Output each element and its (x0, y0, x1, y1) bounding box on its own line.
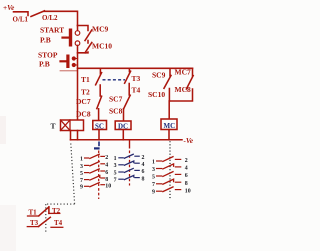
SC selector contact 3-4 left terminal (84, 164, 89, 166)
wire rail below START to STOP (77, 46, 79, 121)
overload contact O/L1-O/L2 blade (31, 11, 45, 17)
pushbutton STOP P.B plunger (66, 55, 69, 69)
DC selector contact 1-2 right terminal (134, 155, 140, 157)
wire T2 to DC7 (99, 85, 101, 96)
mechanical link bank 1 (red dashed) (98, 151, 100, 200)
label O/L2 (42, 14, 58, 22)
contact MC10 blade (85, 43, 92, 53)
DC selector contact 3-4 left terminal (118, 164, 124, 166)
svg-text:6: 6 (142, 169, 145, 175)
svg-text:-Ve: -Ve (184, 137, 194, 145)
label SC9 (152, 70, 166, 79)
label SC10 (148, 90, 165, 99)
label DC7 (76, 97, 91, 106)
svg-text:1: 1 (152, 159, 155, 165)
SC selector contact 9-10 right terminal (100, 184, 105, 186)
contact T1-T2 blade (96, 73, 102, 85)
mechanical link timer T to contacts T1..T4 (black dotted) (46, 144, 75, 233)
svg-text:MC9: MC9 (92, 25, 108, 34)
svg-text:10: 10 (105, 184, 111, 190)
MC selector contact 7-8 left terminal (156, 183, 162, 185)
contact T3-T4 blade (open) (39, 217, 51, 226)
SC selector contact 1-2 right terminal (100, 155, 105, 157)
svg-text:4: 4 (105, 163, 108, 169)
wire SC coil to bottom bus (98, 130, 100, 140)
terminal bar T1 (28, 215, 39, 217)
wire drop to T3 contact (128, 68, 130, 71)
svg-text:7: 7 (152, 182, 155, 188)
SC selector contact 7-8 left terminal (84, 179, 89, 181)
wire drop to SC9 contact (169, 68, 171, 76)
MC selector contact 9-10 right terminal (175, 189, 182, 191)
DC selector contact 7-8 right terminal (134, 177, 140, 179)
DC selector contact 7-8 blade (124, 175, 134, 180)
MC selector contact 9-10 left terminal (156, 190, 162, 192)
SC selector contact 5-6 left terminal (84, 172, 89, 174)
node +Ve supply label (3, 4, 15, 12)
SC selector contact 3-4 right terminal (100, 163, 105, 165)
svg-text:MC7: MC7 (175, 68, 191, 77)
coil MC (161, 119, 177, 130)
SC selector contact 5-6 right terminal (100, 170, 105, 172)
DC selector contact 5-6 right terminal (134, 169, 140, 171)
terminal bar T3 (27, 226, 38, 228)
label SC8 (109, 106, 123, 115)
label SC7 (109, 94, 123, 103)
MC selector contact 3-4 blade (162, 164, 173, 169)
contact MC7-MC8 blade (186, 76, 193, 89)
pushbutton START P.B terminals (75, 31, 80, 36)
svg-text:T3: T3 (132, 74, 141, 83)
mechanical link coil MC to bank 3 (black dotted) (169, 141, 171, 198)
label T4 (timer contact) (54, 219, 63, 227)
wire T4 to SC7 (128, 84, 130, 96)
node -Ve supply label (184, 137, 194, 145)
DC selector contact 1-2 blade (124, 154, 134, 159)
selector bank 2 (DC operated contact bank) (114, 154, 145, 184)
svg-text:4: 4 (185, 166, 188, 172)
svg-text:T2: T2 (81, 88, 90, 97)
svg-text:STOP: STOP (38, 51, 58, 60)
label STOP P.B (38, 51, 58, 69)
svg-text:SC8: SC8 (109, 106, 123, 115)
MC selector contact 7-8 blade (162, 179, 173, 184)
wire merge to coil MC (168, 101, 170, 119)
svg-text:SC7: SC7 (109, 94, 123, 103)
terminal bar T2 (49, 212, 60, 214)
label MC8 (175, 85, 191, 94)
wire top bus (78, 67, 193, 69)
label T1 (timer contact) (29, 208, 38, 216)
svg-text:9: 9 (80, 185, 83, 191)
svg-text:P.B: P.B (39, 60, 50, 69)
contact SC9-SC10 blade (164, 75, 171, 88)
wire MC8 down and merge (169, 89, 192, 101)
svg-text:3: 3 (80, 164, 83, 170)
svg-text:T2: T2 (52, 207, 61, 215)
label T3 (timer contact) (30, 219, 39, 227)
wire bus corner down to MC7 (192, 68, 194, 76)
wire SC8 to coil DC (123, 109, 125, 121)
svg-text:T4: T4 (132, 85, 141, 94)
wire branch to MC9/MC10 holding contacts (78, 26, 89, 31)
MC selector contact 3-4 left terminal (156, 168, 162, 170)
wire between MC9 and MC10 (87, 41, 89, 44)
pushbutton STOP P.B contacts (72, 56, 76, 60)
MC selector contact 7-8 right terminal (175, 181, 182, 183)
label START P.B (40, 26, 64, 45)
mechanical link T1/T3 contacts (blue dashed) (103, 79, 126, 81)
label T2 (81, 88, 90, 97)
svg-text:DC8: DC8 (76, 109, 91, 118)
label MC10 (92, 42, 112, 51)
wire MC10 return to rail (78, 51, 89, 54)
contact DC7-DC8 blade (97, 96, 102, 108)
svg-text:+Ve: +Ve (3, 4, 15, 12)
svg-text:START: START (40, 26, 64, 35)
SC selector contact 9-10 left terminal (84, 185, 89, 187)
timer coil T box (61, 120, 84, 131)
contact MC9 blade (85, 30, 92, 41)
svg-text:T: T (51, 122, 56, 131)
MC selector contact 5-6 blade (162, 171, 173, 176)
svg-text:SC9: SC9 (152, 70, 166, 79)
DC selector contact 3-4 blade (124, 161, 134, 166)
mechanical link coil SC to bank 1 (blue tick) (98, 142, 100, 147)
DC selector contact 1-2 left terminal (118, 157, 124, 159)
DC selector contact 3-4 right terminal (134, 162, 140, 164)
pushbutton START P.B plunger (69, 29, 72, 47)
svg-text:DC7: DC7 (76, 97, 91, 106)
MC selector contact 5-6 right terminal (175, 173, 182, 175)
wire bottom bus -Ve (71, 139, 183, 141)
coil SC (93, 121, 107, 130)
svg-text:6: 6 (105, 170, 108, 176)
svg-text:T4: T4 (54, 219, 63, 227)
MC selector contact 3-4 right terminal (175, 166, 182, 168)
mechanical link bank 2 (red dashed) (129, 151, 131, 186)
SC selector contact 7-8 right terminal (100, 177, 105, 179)
SC selector contact 9-10 blade (89, 182, 100, 187)
svg-text:10: 10 (185, 188, 191, 194)
wire timer right leg to bus (77, 131, 79, 140)
wire O/L2 to top corner (44, 11, 78, 25)
svg-text:P.B: P.B (40, 36, 51, 45)
label T3 (132, 74, 141, 83)
wire timer left leg to bus (70, 131, 72, 140)
selector bank 3 (MC operated contact bank) (152, 156, 191, 195)
svg-text:4: 4 (142, 162, 145, 168)
SC selector contact 1-2 blade (89, 154, 100, 159)
svg-text:5: 5 (114, 170, 117, 176)
label MC7 (175, 68, 191, 77)
svg-text:2: 2 (185, 158, 188, 164)
label DC8 (76, 109, 91, 118)
svg-text:2: 2 (105, 155, 108, 161)
label MC9 (92, 25, 108, 34)
MC selector contact 5-6 left terminal (156, 175, 162, 177)
terminal bar T4 (51, 226, 63, 228)
svg-text:T1: T1 (81, 75, 90, 84)
MC selector contact 9-10 blade (162, 187, 173, 192)
svg-text:9: 9 (152, 190, 155, 196)
svg-text:3: 3 (114, 163, 117, 169)
wire DC8 to coil SC (98, 109, 100, 121)
svg-text:MC: MC (164, 122, 176, 130)
contact T1-T2 blade (closed) (39, 207, 49, 216)
label O/L1 (13, 15, 29, 23)
wire stub under STOP (60, 70, 78, 72)
smudge left edge (0, 116, 6, 144)
label T1 (81, 75, 90, 84)
label T2 (timer contact) (52, 207, 61, 215)
wire DC coil to bottom bus (122, 130, 124, 140)
smudge bottom left (0, 205, 16, 251)
svg-text:7: 7 (114, 178, 117, 184)
SC selector contact 1-2 left terminal (84, 157, 89, 159)
MC selector contact 1-2 left terminal (156, 160, 162, 162)
SC selector contact 5-6 blade (89, 169, 100, 174)
svg-text:1: 1 (114, 156, 117, 162)
svg-text:7: 7 (80, 178, 83, 184)
SC selector contact 7-8 blade (89, 176, 100, 181)
svg-text:2: 2 (142, 155, 145, 161)
DC selector contact 5-6 blade (124, 168, 134, 173)
wire SC10 down (168, 89, 170, 102)
svg-text:8: 8 (142, 176, 145, 182)
svg-text:MC10: MC10 (92, 42, 112, 51)
coil DC (115, 121, 131, 130)
contact T3-T4 blade (125, 71, 131, 83)
svg-text:1: 1 (80, 156, 83, 162)
wire from +Ve to O/L contact (14, 12, 29, 16)
contact SC7-SC8 blade (124, 95, 131, 109)
svg-text:8: 8 (105, 177, 108, 183)
svg-text:6: 6 (185, 173, 188, 179)
SC selector contact 3-4 blade (89, 161, 100, 166)
wire MC coil to bottom bus (168, 130, 170, 140)
svg-text:O/L1: O/L1 (13, 15, 29, 23)
svg-text:5: 5 (152, 174, 155, 180)
label T4 (132, 85, 141, 94)
DC selector contact 5-6 left terminal (118, 171, 124, 173)
MC selector contact 1-2 right terminal (175, 158, 182, 160)
wire rail above START terminals (77, 26, 79, 31)
DC selector contact 7-8 left terminal (118, 178, 124, 180)
mechanical link coil DC to bank 2 stub (129, 140, 131, 149)
svg-text:5: 5 (80, 171, 83, 177)
label T (timer) (51, 122, 56, 131)
selector bank 1 (SC operated contact bank) (80, 154, 111, 191)
svg-text:O/L2: O/L2 (42, 14, 58, 22)
svg-text:8: 8 (185, 181, 188, 187)
svg-text:SC10: SC10 (148, 90, 165, 99)
wire drop to T1 contact (99, 68, 101, 74)
svg-text:MC8: MC8 (175, 85, 191, 94)
svg-text:T1: T1 (29, 208, 38, 216)
svg-text:3: 3 (152, 167, 155, 173)
MC selector contact 1-2 blade (162, 156, 173, 161)
